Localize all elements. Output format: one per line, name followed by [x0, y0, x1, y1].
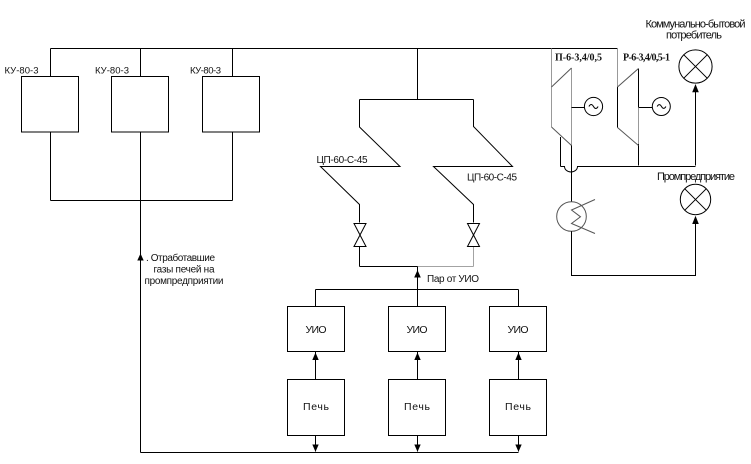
svg-text:КУ-80-3: КУ-80-3	[190, 66, 221, 77]
svg-text:УИО: УИО	[407, 324, 428, 336]
svg-text:. Отработавшие: . Отработавшие	[146, 252, 215, 264]
svg-text:П-6-3,4/0,5: П-6-3,4/0,5	[555, 53, 602, 64]
svg-text:Печь: Печь	[505, 401, 532, 413]
svg-text:КУ-80-3: КУ-80-3	[5, 66, 39, 77]
svg-text:Печь: Печь	[303, 401, 330, 413]
svg-text:Промпредприятие: Промпредприятие	[657, 171, 735, 183]
svg-text:Р-6-3,4/0,5-1: Р-6-3,4/0,5-1	[623, 53, 670, 64]
svg-text:КУ-80-3: КУ-80-3	[95, 66, 129, 77]
svg-text:потребитель: потребитель	[666, 30, 722, 42]
svg-text:ЦП-60-С-45: ЦП-60-С-45	[467, 173, 517, 184]
svg-text:УИО: УИО	[306, 324, 327, 336]
svg-text:Пар от УИО: Пар от УИО	[427, 274, 479, 285]
svg-text:ЦП-60-С-45: ЦП-60-С-45	[317, 155, 368, 166]
svg-text:промпредприятии: промпредприятии	[145, 276, 224, 287]
svg-text:газы печей на: газы печей на	[154, 265, 215, 276]
svg-text:Печь: Печь	[404, 401, 431, 413]
svg-text:УИО: УИО	[508, 324, 529, 336]
